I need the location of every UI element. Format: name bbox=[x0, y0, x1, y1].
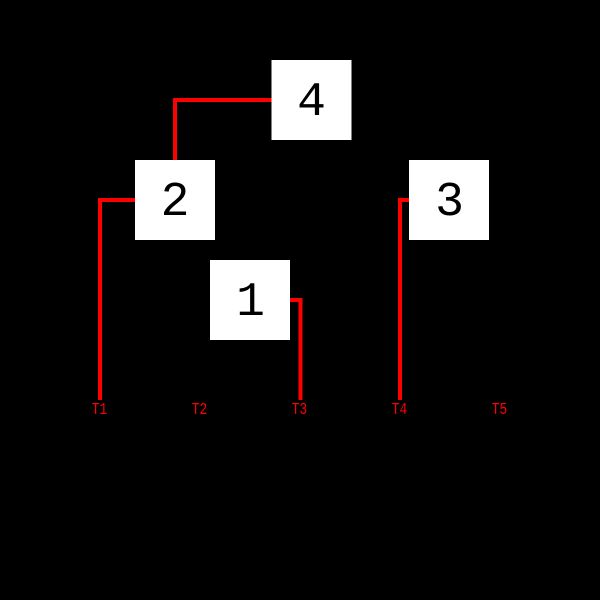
svg-text:T1: T1 bbox=[92, 401, 108, 420]
svg-text:T4: T4 bbox=[392, 401, 408, 420]
svg-text:1: 1 bbox=[236, 276, 265, 330]
svg-text:4: 4 bbox=[297, 76, 326, 130]
svg-text:3: 3 bbox=[435, 176, 464, 230]
svg-text:T3: T3 bbox=[292, 401, 308, 420]
svg-text:T5: T5 bbox=[492, 401, 508, 420]
svg-text:T2: T2 bbox=[192, 401, 208, 420]
svg-text:2: 2 bbox=[161, 176, 190, 230]
